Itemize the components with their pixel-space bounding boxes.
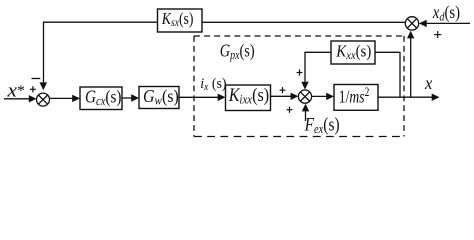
svg-text:Kxx(s): Kxx(s)	[335, 42, 371, 62]
svg-text:Ksx(s): Ksx(s)	[161, 9, 194, 29]
wire: Kxx output down to S2	[305, 52, 331, 83]
svg-text:xd(s): xd(s)	[432, 2, 460, 23]
arrowhead into S2 from Kxx (down)	[301, 82, 308, 90]
wire Kixx to S2	[271, 95, 293, 97]
block Ksx(s)	[158, 9, 203, 32]
svg-text:Kixx(s): Kixx(s)	[228, 86, 269, 107]
svg-text:Gcx(s): Gcx(s)	[85, 86, 122, 108]
arrowhead into S2 from Fex (up)	[302, 104, 309, 112]
svg-text:1/ms2: 1/ms2	[339, 85, 370, 107]
svg-text:ix (s): ix (s)	[200, 76, 226, 93]
sign + at S3	[434, 31, 441, 38]
sign + left of S2	[280, 87, 286, 93]
block Kixx(s)	[226, 85, 271, 111]
block Gw(s)	[139, 86, 179, 109]
wire: top feedback from Ksx to S1	[44, 22, 158, 83]
wire: pickoff up to S3	[410, 38, 412, 97]
wire: output x	[378, 96, 433, 98]
wire: S3 output to Ksx (top line)	[202, 21, 406, 23]
arrowhead into Kixx	[218, 94, 226, 101]
summing junction S3	[405, 17, 418, 30]
svg-text:Gw(s): Gw(s)	[143, 86, 179, 108]
arrowhead into Gw	[131, 94, 139, 101]
wire S2 to 1/ms2	[312, 95, 328, 97]
svg-text:Gpx(s): Gpx(s)	[220, 41, 255, 63]
wire: xd input	[425, 22, 470, 24]
wire Gw to Kixx	[179, 96, 220, 98]
wire: x* input	[4, 98, 31, 100]
arrowhead into S1 from top (feedback)	[40, 82, 48, 90]
svg-text:Fex(s): Fex(s)	[304, 116, 340, 137]
svg-text:x: x	[424, 73, 432, 93]
summing junction S1	[37, 93, 50, 106]
wire Gcx to Gw	[122, 97, 133, 99]
sign + above S2	[297, 69, 303, 75]
arrowhead into S3 from xd (left)	[419, 20, 427, 27]
wire: pickoff up to Kxx input	[375, 52, 400, 97]
block Gcx(s)	[80, 86, 122, 109]
sign minus at S1	[32, 78, 41, 80]
sign + at S1	[30, 86, 36, 92]
block 1/ms2	[334, 85, 378, 111]
arrowhead into S3 from below (up)	[407, 31, 414, 39]
summing junction S2	[298, 90, 311, 103]
dashed box Gpx plant	[194, 36, 404, 137]
arrowhead output x	[432, 94, 440, 101]
arrowhead into 1/ms2	[326, 93, 334, 100]
arrowhead into Gcx	[72, 95, 80, 102]
svg-text:x*: x*	[6, 80, 25, 101]
arrowhead into S2 from Kixx	[291, 93, 299, 100]
wire: Fex up arrow shaft	[305, 111, 307, 122]
arrowhead into S1 from x*	[29, 95, 37, 102]
sign + below S2	[287, 107, 293, 113]
wire S1 to Gcx	[49, 97, 74, 99]
block Kxx(s)	[331, 41, 375, 64]
